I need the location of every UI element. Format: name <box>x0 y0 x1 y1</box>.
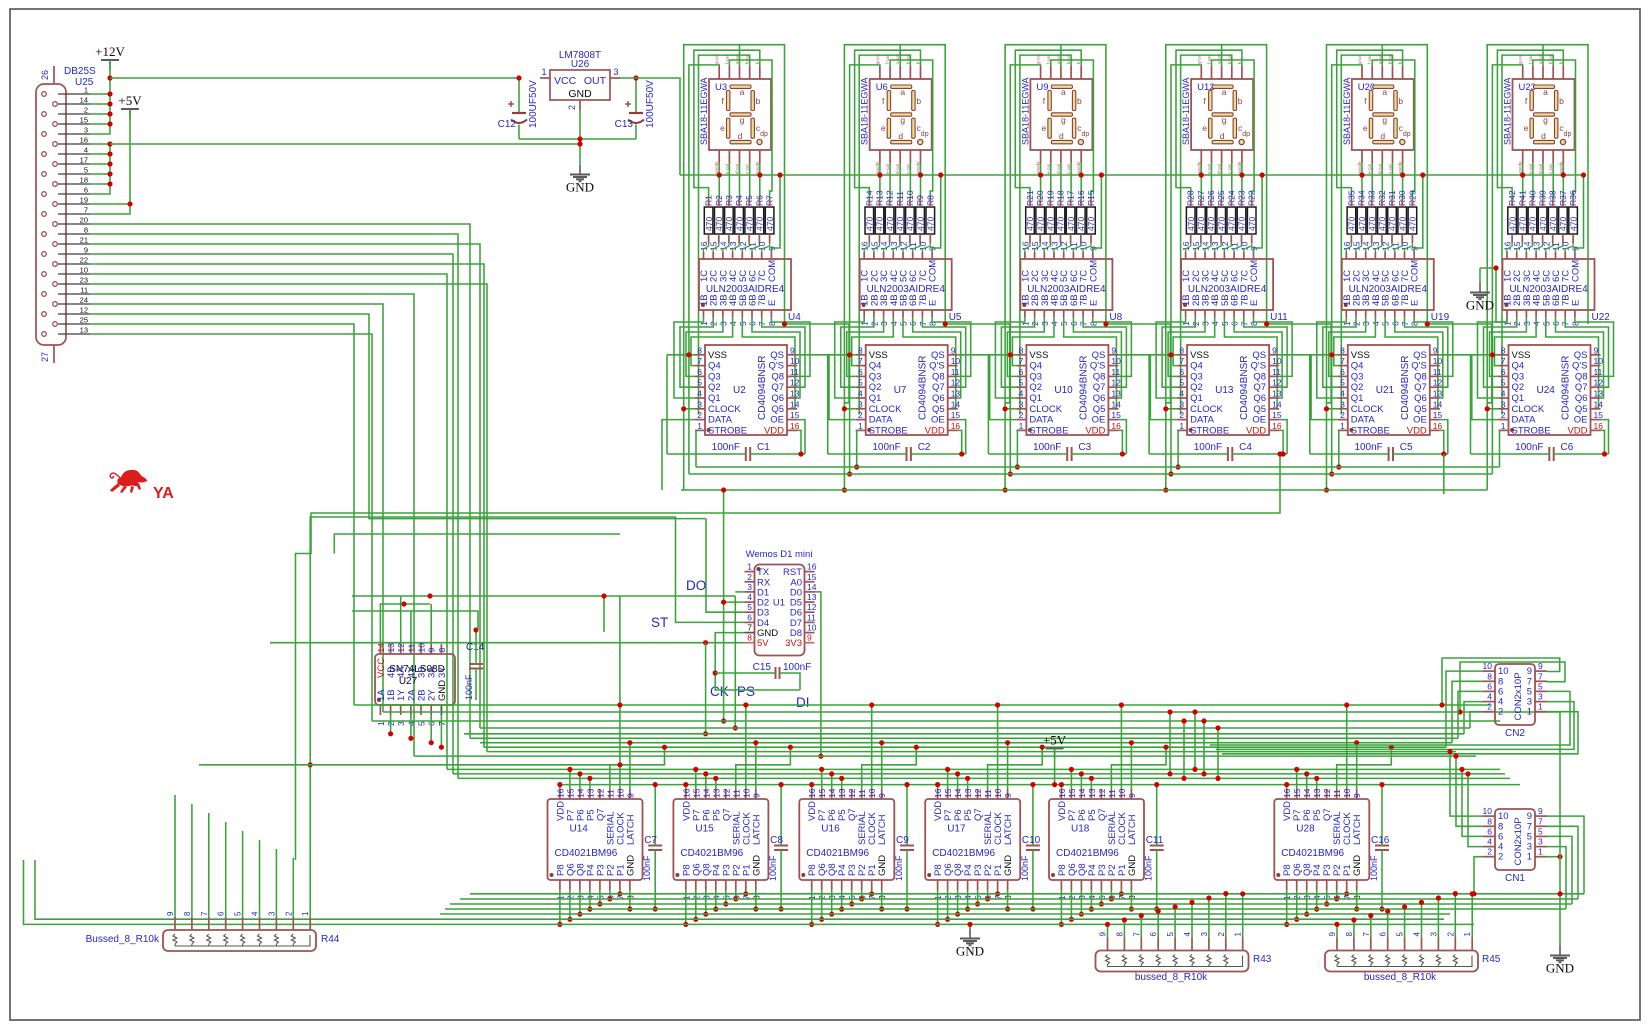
display U6 top pin 2 <box>889 66 891 79</box>
connector CN1 pin 7 <box>1535 825 1547 827</box>
wire U18 GND pin down <box>1130 890 1132 909</box>
wire pass-around loop U23 <box>1487 45 1588 490</box>
svg-text:Q'S: Q'S <box>768 361 784 372</box>
wire U16 SERIAL elbow <box>862 747 917 789</box>
display U3 top pin 5 <box>759 66 761 79</box>
wire resistor to driver input <box>1073 243 1080 252</box>
gate U27 pin 4 2A <box>410 705 412 715</box>
shift register U21 pin 14 Q5 <box>1430 408 1440 410</box>
svg-text:470: 470 <box>1507 217 1517 231</box>
shift register U17 pin 8 GND <box>1007 880 1009 890</box>
shift register U2 pin 14 Q5 <box>787 408 797 410</box>
connector CN2 pin 7 <box>1535 680 1547 682</box>
svg-text:Bussed_8_R10k: Bussed_8_R10k <box>86 934 160 945</box>
svg-text:9: 9 <box>625 793 635 798</box>
wire resistor to driver input <box>1064 243 1071 252</box>
svg-text:Q8: Q8 <box>771 371 784 382</box>
display U9 segment b <box>1072 91 1075 111</box>
svg-text:Q'S: Q'S <box>1411 361 1427 372</box>
display U23 bottom pin 8 <box>1542 150 1544 163</box>
svg-text:C4: C4 <box>1239 442 1252 453</box>
module U1 pin 14 D0 <box>805 591 815 593</box>
svg-text:15: 15 <box>1292 788 1302 798</box>
resistor network R45 pin 6 <box>1387 938 1389 951</box>
svg-text:E: E <box>1570 300 1581 306</box>
wire U15 LATCH riser <box>755 743 757 789</box>
wire bus jog pre a near U28 <box>1169 712 1171 774</box>
wire capacitor C1 ground side <box>666 355 668 454</box>
wire U23 pin5 wrap left <box>1497 50 1563 199</box>
connector U25 pin 21 <box>53 242 58 247</box>
display U12 segment a <box>1212 85 1233 88</box>
driver U11 pin 16 1C <box>1185 252 1187 259</box>
display U6 segment a <box>891 85 912 88</box>
wire CN2 loop outer <box>1442 658 1560 705</box>
wire driver pin 5 to Q5 <box>1385 317 1440 409</box>
svg-text:E: E <box>767 300 778 306</box>
svg-text:6: 6 <box>1487 681 1492 691</box>
wire driver pin 1 to Q1 <box>835 317 865 398</box>
svg-text:OE: OE <box>1092 415 1106 426</box>
svg-text:Q2: Q2 <box>708 382 721 393</box>
shift register U10 pin 1 STROBE <box>1016 429 1026 431</box>
wire U20 pin3 up to loop <box>1381 45 1383 66</box>
svg-text:CD4021BM96: CD4021BM96 <box>555 848 618 859</box>
shift register U24 pin 13 Q6 <box>1591 397 1601 399</box>
wire U20 pin4 long drop <box>1341 55 1392 415</box>
wire pass-around loop U20 <box>1327 45 1428 490</box>
wire driver pin 4 to Q4 <box>691 317 733 366</box>
driver U4 pin 5 5B <box>741 310 743 317</box>
driver U8 pin 14 3C <box>1043 252 1045 259</box>
wire bus line y764 <box>199 764 620 766</box>
resistor network R45 pin 3 <box>1437 938 1439 951</box>
svg-text:1: 1 <box>747 562 752 572</box>
driver U19 pin 13 4C <box>1374 252 1376 259</box>
shift register U10 pin 4 Q1 <box>1016 397 1026 399</box>
svg-text:U28: U28 <box>1296 824 1315 835</box>
shift register U16 pin 1 P8 <box>811 880 813 890</box>
svg-text:PS: PS <box>737 684 755 699</box>
shift register U10 pin 10 Q'S <box>1108 365 1118 367</box>
shift register U21 pin 7 Q4 <box>1338 365 1348 367</box>
wire resistor to driver input <box>893 243 900 252</box>
svg-text:Q4: Q4 <box>1512 361 1525 372</box>
svg-text:Q1: Q1 <box>1190 393 1203 404</box>
wire driver pin 6 to Q6 <box>1073 317 1121 398</box>
shift register U10 pin 2 DATA <box>1016 419 1026 421</box>
svg-text:11: 11 <box>1332 789 1342 798</box>
svg-text:VSS: VSS <box>1190 350 1209 361</box>
svg-text:470: 470 <box>1408 217 1418 231</box>
svg-text:ULN2003AIDRE4: ULN2003AIDRE4 <box>867 284 946 295</box>
shift register U24 pin 4 Q1 <box>1499 397 1509 399</box>
svg-text:OE: OE <box>770 415 784 426</box>
svg-text:1: 1 <box>1501 421 1506 431</box>
connector CN1 pin 10 <box>1483 815 1495 817</box>
resistor network R45 pin 2 <box>1454 938 1456 951</box>
driver U5 pin 16 1C <box>863 252 865 259</box>
driver U5 pin 15 2C <box>873 252 875 259</box>
svg-text:11: 11 <box>790 367 799 377</box>
svg-text:8: 8 <box>747 633 752 643</box>
wire resistor to driver input <box>1565 243 1573 252</box>
shift register U14 CD4021BM96 body <box>548 799 643 880</box>
shift register U28 CD4021BM96 body <box>1274 799 1369 880</box>
shift register U15 pin 12 Q7 <box>725 789 727 799</box>
wire U12 pin5 wrap left <box>1176 50 1242 199</box>
svg-text:100nF: 100nF <box>642 855 652 881</box>
wire U6 pin1 wrap left ground <box>850 65 880 474</box>
svg-text:470: 470 <box>1528 217 1538 231</box>
svg-text:8: 8 <box>1179 345 1184 355</box>
svg-text:16: 16 <box>790 421 800 431</box>
display U3 bottom pin 6 <box>718 150 720 163</box>
svg-text:10: 10 <box>790 356 800 366</box>
driver U22 pin 4 4B <box>1535 310 1537 317</box>
svg-text:14: 14 <box>1111 399 1121 409</box>
wire U16 GND pin down <box>881 890 883 909</box>
wire U3 pin3 up to loop <box>739 45 741 66</box>
svg-text:Q8: Q8 <box>932 371 945 382</box>
svg-text:2: 2 <box>1501 410 1506 420</box>
svg-text:Q7: Q7 <box>1253 382 1266 393</box>
wire resistor to driver input <box>1346 243 1351 252</box>
shift register U28 pin 1 P8 <box>1286 880 1288 890</box>
display U6 segment c <box>912 118 915 138</box>
shift register U21 pin 5 Q2 <box>1338 386 1348 388</box>
wire U6 pin5 wrap left <box>855 50 921 199</box>
display U23 segment f <box>1530 91 1533 111</box>
driver U11 pin 3 3B <box>1204 310 1206 317</box>
svg-text:14: 14 <box>807 582 817 592</box>
svg-text:dp: dp <box>1403 131 1411 138</box>
svg-text:17: 17 <box>80 156 88 165</box>
svg-text:9: 9 <box>427 648 437 653</box>
driver U19 pin 14 3C <box>1365 252 1367 259</box>
svg-text:100nF: 100nF <box>712 442 740 453</box>
svg-text:dp: dp <box>1242 131 1250 138</box>
wire capacitor C3 ground side <box>987 355 989 454</box>
wire U9 pin4 long drop <box>1020 55 1071 415</box>
svg-text:11: 11 <box>1433 367 1442 377</box>
shift register U14 pin 7 P1 <box>619 880 621 890</box>
wire resistor to driver input <box>1375 243 1382 252</box>
shift register U14 pin 1 P8 <box>559 880 561 890</box>
wire U27 pin 6 down <box>430 715 432 743</box>
display U23 top pin 5 <box>1562 66 1564 79</box>
svg-text:CD4094BNSR: CD4094BNSR <box>757 356 768 420</box>
svg-text:2: 2 <box>747 572 752 582</box>
wire bus line y778 <box>458 777 1510 779</box>
svg-text:100nF: 100nF <box>1033 442 1061 453</box>
wire GND bus to regulator ground <box>110 143 580 145</box>
driver U11 pin 9 COM <box>1253 252 1255 259</box>
svg-text:100nF: 100nF <box>1369 855 1379 881</box>
shift register U18 pin 9 LATCH <box>1130 789 1132 799</box>
svg-text:7: 7 <box>1340 356 1345 366</box>
svg-text:VDD: VDD <box>1567 425 1587 436</box>
wire U25 pin 16 to GND rail <box>90 143 110 145</box>
svg-text:Q4: Q4 <box>1190 361 1203 372</box>
svg-text:470: 470 <box>765 217 775 231</box>
svg-text:100UF50V: 100UF50V <box>528 80 539 128</box>
svg-text:1: 1 <box>541 67 546 77</box>
svg-text:3: 3 <box>1179 399 1184 409</box>
wire net R44 to C4 cap <box>296 454 1281 860</box>
svg-text:CD4094BNSR: CD4094BNSR <box>1400 356 1411 420</box>
display U20 top pin 4 <box>1392 66 1394 79</box>
svg-text:Q5: Q5 <box>932 404 945 415</box>
wire U6 pin4 long drop <box>859 55 910 415</box>
display U23 segment b <box>1555 91 1558 111</box>
wire U27 pin 11 up <box>410 611 412 644</box>
capacitor C12 100UF50V <box>518 78 520 112</box>
svg-text:8: 8 <box>1487 671 1492 681</box>
shift register U17 pin 6 P2 <box>987 880 989 890</box>
wire COM U19 to +8V bus <box>1414 175 1423 252</box>
svg-text:Q3: Q3 <box>1029 371 1042 382</box>
shift register U10 pin 3 CLOCK <box>1016 408 1026 410</box>
shift register U17 pin 7 P1 <box>997 880 999 890</box>
svg-text:6: 6 <box>1501 367 1506 377</box>
shift register U10 pin 12 Q7 <box>1108 386 1118 388</box>
wire U14 P6 riser <box>579 774 581 789</box>
svg-text:12: 12 <box>790 378 800 388</box>
svg-text:GND: GND <box>1127 855 1138 876</box>
shift register U28 pin 6 P2 <box>1336 880 1338 890</box>
wire resistor to driver input <box>1385 243 1392 252</box>
svg-text:11: 11 <box>406 643 416 652</box>
display U6 segment f <box>887 91 890 111</box>
wire CN1 left pin hook 4 <box>1474 857 1483 894</box>
svg-text:13: 13 <box>585 788 595 798</box>
svg-text:Q5: Q5 <box>1414 404 1427 415</box>
svg-text:1: 1 <box>1463 932 1472 937</box>
wire U15 P6 riser <box>705 774 707 789</box>
svg-text:LATCH: LATCH <box>1127 814 1138 845</box>
svg-text:VSS: VSS <box>708 350 727 361</box>
shift register U2 pin 10 Q'S <box>787 365 797 367</box>
wire resistor to driver input <box>903 243 910 252</box>
svg-text:21: 21 <box>80 236 88 245</box>
wire driver pin 1 to Q1 <box>1478 317 1508 398</box>
driver U4 pin 1 1B <box>703 310 705 317</box>
wire CLOCK U21 entry <box>1327 408 1338 410</box>
svg-text:9: 9 <box>1328 932 1337 937</box>
svg-text:VDD: VDD <box>1407 425 1427 436</box>
display U6 SBA18-11EGWA body <box>870 79 932 150</box>
svg-text:8: 8 <box>697 345 702 355</box>
wire QS cascade U2 to next DATA <box>797 355 856 420</box>
svg-text:b: b <box>1398 96 1403 106</box>
svg-text:470: 470 <box>1347 217 1357 231</box>
wire VDD U7 to capacitor <box>958 430 962 454</box>
wire resistor to driver input <box>1025 243 1030 252</box>
svg-text:8: 8 <box>84 226 88 235</box>
svg-text:Q8: Q8 <box>1093 371 1106 382</box>
svg-text:bussed_8_R10k: bussed_8_R10k <box>1364 972 1437 983</box>
driver U22 pin 7 7B <box>1564 310 1566 317</box>
driver U19 pin 4 4B <box>1374 310 1376 317</box>
gate U27 pin 9 3A <box>430 644 432 654</box>
wire driver pin 2 to Q2 <box>1001 317 1034 387</box>
svg-text:4: 4 <box>1487 692 1492 702</box>
wire U18 SERIAL elbow <box>1111 747 1166 789</box>
svg-text:470: 470 <box>744 217 754 231</box>
svg-text:12: 12 <box>1594 378 1604 388</box>
wire COM U11 to +8V bus <box>1254 175 1263 252</box>
svg-text:13: 13 <box>790 389 800 399</box>
wire driver pin 7 to Q7 <box>1083 317 1126 387</box>
wire U25 pin 9 data line <box>90 254 453 774</box>
wire U27 top bus b <box>352 595 735 597</box>
wire CLOCK U7 entry <box>844 408 855 410</box>
wire bus line y742 <box>480 742 1452 744</box>
svg-text:U2: U2 <box>733 385 746 396</box>
svg-text:d: d <box>1541 131 1546 141</box>
svg-text:9: 9 <box>1127 793 1137 798</box>
gate U27 pin 10 3B <box>420 644 422 654</box>
svg-text:10: 10 <box>951 356 961 366</box>
gate U27 SN74LS08D body <box>375 654 455 705</box>
svg-text:12: 12 <box>1433 378 1443 388</box>
svg-text:11: 11 <box>983 789 993 798</box>
svg-text:b: b <box>1238 96 1243 106</box>
svg-text:U26: U26 <box>571 59 590 70</box>
driver U19 pin 6 6B <box>1394 310 1396 317</box>
wire regulator output to display bus <box>620 78 680 175</box>
shift register U18 CD4021BM96 body <box>1049 799 1144 880</box>
driver U22 pin 13 4C <box>1535 252 1537 259</box>
driver U11 pin 10 7C <box>1243 252 1245 259</box>
shift register U24 pin 7 Q4 <box>1499 365 1509 367</box>
svg-text:a: a <box>1543 87 1548 97</box>
svg-text:13: 13 <box>1087 788 1097 798</box>
shift register U15 pin 9 LATCH <box>755 789 757 799</box>
display U3 segment f <box>727 91 730 111</box>
svg-text:Q1: Q1 <box>869 393 882 404</box>
shift register U10 pin 14 Q5 <box>1108 408 1118 410</box>
wire U14 LATCH riser <box>629 743 631 789</box>
wire CN1 right pin hook 3 <box>1547 847 1566 909</box>
shift register U24 pin 15 OE <box>1591 419 1601 421</box>
display U9 SBA18-11EGWA body <box>1030 79 1092 150</box>
driver U11 pin 13 4C <box>1214 252 1216 259</box>
wire driver pin 3 to Q3 <box>1007 317 1044 376</box>
wire U20 pin1 wrap left ground <box>1332 65 1362 474</box>
driver U8 pin 10 7C <box>1082 252 1084 259</box>
wire U15 P7 riser <box>695 769 697 789</box>
svg-text:Q'S: Q'S <box>1572 361 1588 372</box>
svg-text:R43: R43 <box>1253 954 1272 965</box>
svg-text:dp: dp <box>760 131 768 138</box>
shift register U21 pin 10 Q'S <box>1430 365 1440 367</box>
svg-text:Q8: Q8 <box>1253 371 1266 382</box>
capacitor C2 100nF <box>906 447 908 461</box>
connector CN2 pin 4 <box>1483 701 1495 703</box>
svg-text:4: 4 <box>858 389 863 399</box>
svg-text:470: 470 <box>1025 217 1035 231</box>
svg-text:23: 23 <box>80 276 88 285</box>
connector U25 DB25S body <box>36 84 66 345</box>
shift register U21 pin 16 VDD <box>1430 429 1440 431</box>
capacitor C9 100nF <box>900 845 914 847</box>
svg-text:ULN2003AIDRE4: ULN2003AIDRE4 <box>1027 284 1106 295</box>
svg-text:14: 14 <box>951 399 961 409</box>
driver U8 pin 12 5C <box>1063 252 1065 259</box>
svg-text:5: 5 <box>1396 932 1405 937</box>
svg-text:CK: CK <box>710 684 729 699</box>
svg-text:2: 2 <box>1217 932 1226 937</box>
driver U8 ULN2003AIDRE4 body <box>1020 259 1112 310</box>
shift register U14 pin 4 P4 <box>589 880 591 890</box>
svg-text:7: 7 <box>1019 356 1024 366</box>
svg-text:LATCH: LATCH <box>751 814 762 845</box>
driver U19 pin 5 5B <box>1384 310 1386 317</box>
wire U25 pin 18 to GND rail <box>90 183 110 185</box>
driver U4 ULN2003AIDRE4 body <box>699 259 791 310</box>
svg-text:12: 12 <box>973 788 983 798</box>
svg-text:VSS: VSS <box>1351 350 1370 361</box>
svg-text:Q2: Q2 <box>1351 382 1364 393</box>
svg-text:Q5: Q5 <box>1253 404 1266 415</box>
shift register U18 pin 14 P6 <box>1080 789 1082 799</box>
wire U17 GND pin down <box>1007 890 1009 909</box>
driver U8 pin 11 6C <box>1072 252 1074 259</box>
display U20 bottom pin 10 <box>1402 150 1404 163</box>
display U20 bottom pin 7 <box>1371 150 1373 163</box>
svg-text:470: 470 <box>704 217 714 231</box>
shift register U17 pin 1 P8 <box>937 880 939 890</box>
wire U28 P6 riser <box>1306 774 1308 789</box>
svg-text:e: e <box>881 123 886 133</box>
svg-text:Q'S: Q'S <box>1251 361 1267 372</box>
shift register U15 pin 1 P8 <box>685 880 687 890</box>
shift register U21 pin 15 OE <box>1430 419 1440 421</box>
svg-text:11: 11 <box>1111 367 1120 377</box>
wire CN1 pin1 to ground net <box>1547 856 1560 858</box>
driver U22 pin 14 3C <box>1525 252 1527 259</box>
svg-text:1: 1 <box>1019 421 1024 431</box>
svg-text:VDD: VDD <box>1085 425 1105 436</box>
shift register U7 pin 14 Q5 <box>948 408 958 410</box>
svg-text:Q6: Q6 <box>771 393 784 404</box>
shift register U21 pin 1 STROBE <box>1338 429 1348 431</box>
wire pass-around loop U12 <box>1166 45 1267 490</box>
svg-text:25: 25 <box>80 316 88 325</box>
shift register U7 CD4094BNSR body <box>866 345 948 435</box>
svg-text:U18: U18 <box>1071 824 1090 835</box>
shift register U18 pin 15 P7 <box>1070 789 1072 799</box>
shift register U24 pin 12 Q7 <box>1591 386 1601 388</box>
svg-text:11: 11 <box>80 286 88 295</box>
driver U22 pin 15 2C <box>1516 252 1518 259</box>
svg-text:14: 14 <box>1272 399 1282 409</box>
wire resistor to driver input <box>1517 243 1523 252</box>
wire U14 P5 riser <box>589 778 591 789</box>
display U12 top pin 1 <box>1200 66 1202 79</box>
svg-text:dp: dp <box>1564 131 1572 138</box>
shift register U28 pin 9 LATCH <box>1356 789 1358 799</box>
svg-text:C16: C16 <box>1371 835 1390 846</box>
svg-text:470: 470 <box>1046 217 1056 231</box>
svg-text:Q4: Q4 <box>708 361 721 372</box>
connector CN1 pin 4 <box>1483 846 1495 848</box>
wire U9 bottom pins to resistors <box>1040 163 1042 199</box>
driver U11 pin 14 3C <box>1204 252 1206 259</box>
display U12 segment e <box>1209 118 1212 138</box>
